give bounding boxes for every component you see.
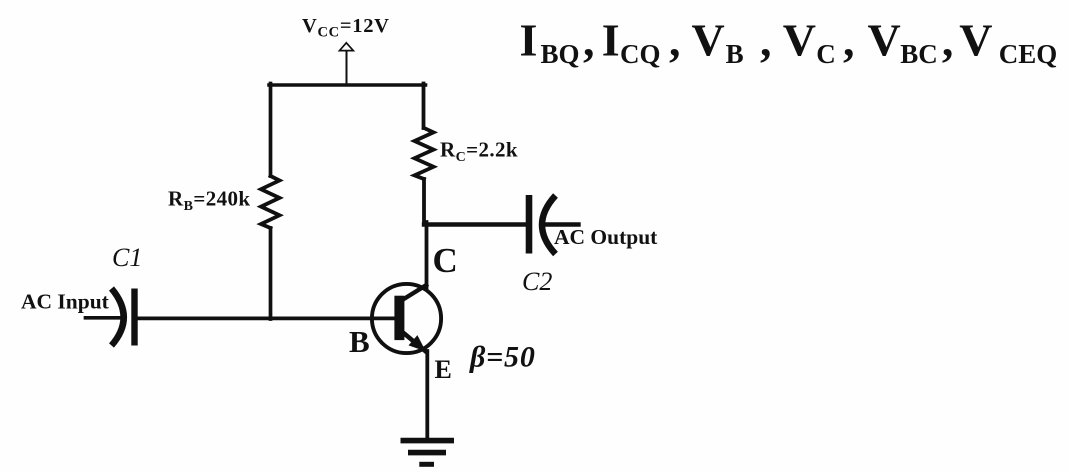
svg-text:C1: C1 <box>112 243 142 272</box>
svg-text:VCC=12V: VCC=12V <box>302 15 390 40</box>
svg-text:AC Output: AC Output <box>554 225 658 249</box>
svg-text:C2: C2 <box>522 267 552 296</box>
svg-text:RC=2.2k: RC=2.2k <box>440 138 518 166</box>
svg-text:AC Input: AC Input <box>21 290 110 314</box>
svg-text:E: E <box>435 355 452 384</box>
svg-text:B: B <box>349 324 370 359</box>
svg-text:β=50: β=50 <box>469 340 536 373</box>
svg-text:RB=240k: RB=240k <box>168 187 250 215</box>
svg-text:C: C <box>433 241 458 280</box>
